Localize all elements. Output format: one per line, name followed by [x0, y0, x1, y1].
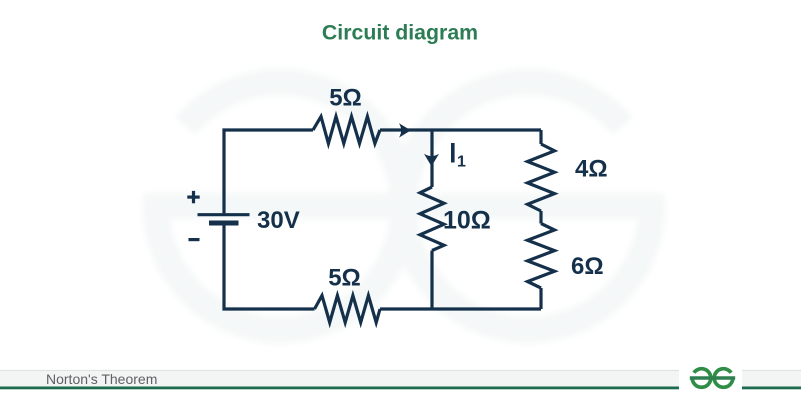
footer band left — [0, 370, 679, 386]
GfG logo bottom right — [690, 369, 735, 388]
svg-text:5Ω: 5Ω — [329, 85, 362, 112]
resistor R2 5ohm (bottom) zigzag — [315, 296, 381, 323]
resistor R5 6ohm zigzag — [528, 224, 555, 289]
wire: right branch bottom segment — [539, 288, 542, 309]
resistor R4 4ohm zigzag — [528, 144, 555, 211]
resistor R3 10ohm (middle) zigzag — [420, 187, 444, 251]
logo right G — [714, 369, 733, 388]
svg-text:1: 1 — [457, 154, 466, 171]
svg-text:Norton's Theorem: Norton's Theorem — [46, 371, 157, 387]
label I1 — [451, 143, 455, 163]
arrowhead on top wire (current direction) — [399, 123, 411, 137]
arrowhead down (current I1) — [424, 154, 439, 167]
footer band right — [742, 370, 801, 386]
wire: right branch top segment — [539, 130, 542, 144]
battery V1 short plate — [209, 221, 239, 226]
svg-text:10Ω: 10Ω — [443, 207, 491, 235]
footer band top border — [0, 369, 801, 371]
wire: top right segment through node A to right branch — [380, 128, 541, 131]
wire: battery top to top-left corner to resistor R1 — [224, 130, 313, 213]
plus sign label — [187, 191, 199, 203]
watermark (faint GfG logo) — [143, 82, 665, 330]
svg-text:4Ω: 4Ω — [575, 156, 608, 183]
battery V1 long plate — [198, 213, 250, 216]
svg-text:30V: 30V — [257, 207, 300, 234]
wire: right branch between resistors — [539, 211, 542, 224]
svg-text:6Ω: 6Ω — [571, 253, 604, 280]
logo left G — [692, 369, 711, 388]
wire: bottom right segment — [380, 307, 541, 310]
footer green line right — [742, 387, 801, 390]
logo bar — [690, 376, 735, 379]
svg-text:5Ω: 5Ω — [328, 265, 361, 292]
wire: bottom left segment from battery — [224, 225, 315, 309]
minus sign label — [189, 238, 200, 241]
wire: middle branch lower segment — [430, 251, 433, 310]
svg-text:Circuit diagram: Circuit diagram — [322, 21, 478, 45]
resistor R1 5ohm (top) zigzag — [313, 117, 380, 144]
wire: middle branch upper segment — [430, 130, 433, 187]
footer green line left — [0, 387, 679, 390]
